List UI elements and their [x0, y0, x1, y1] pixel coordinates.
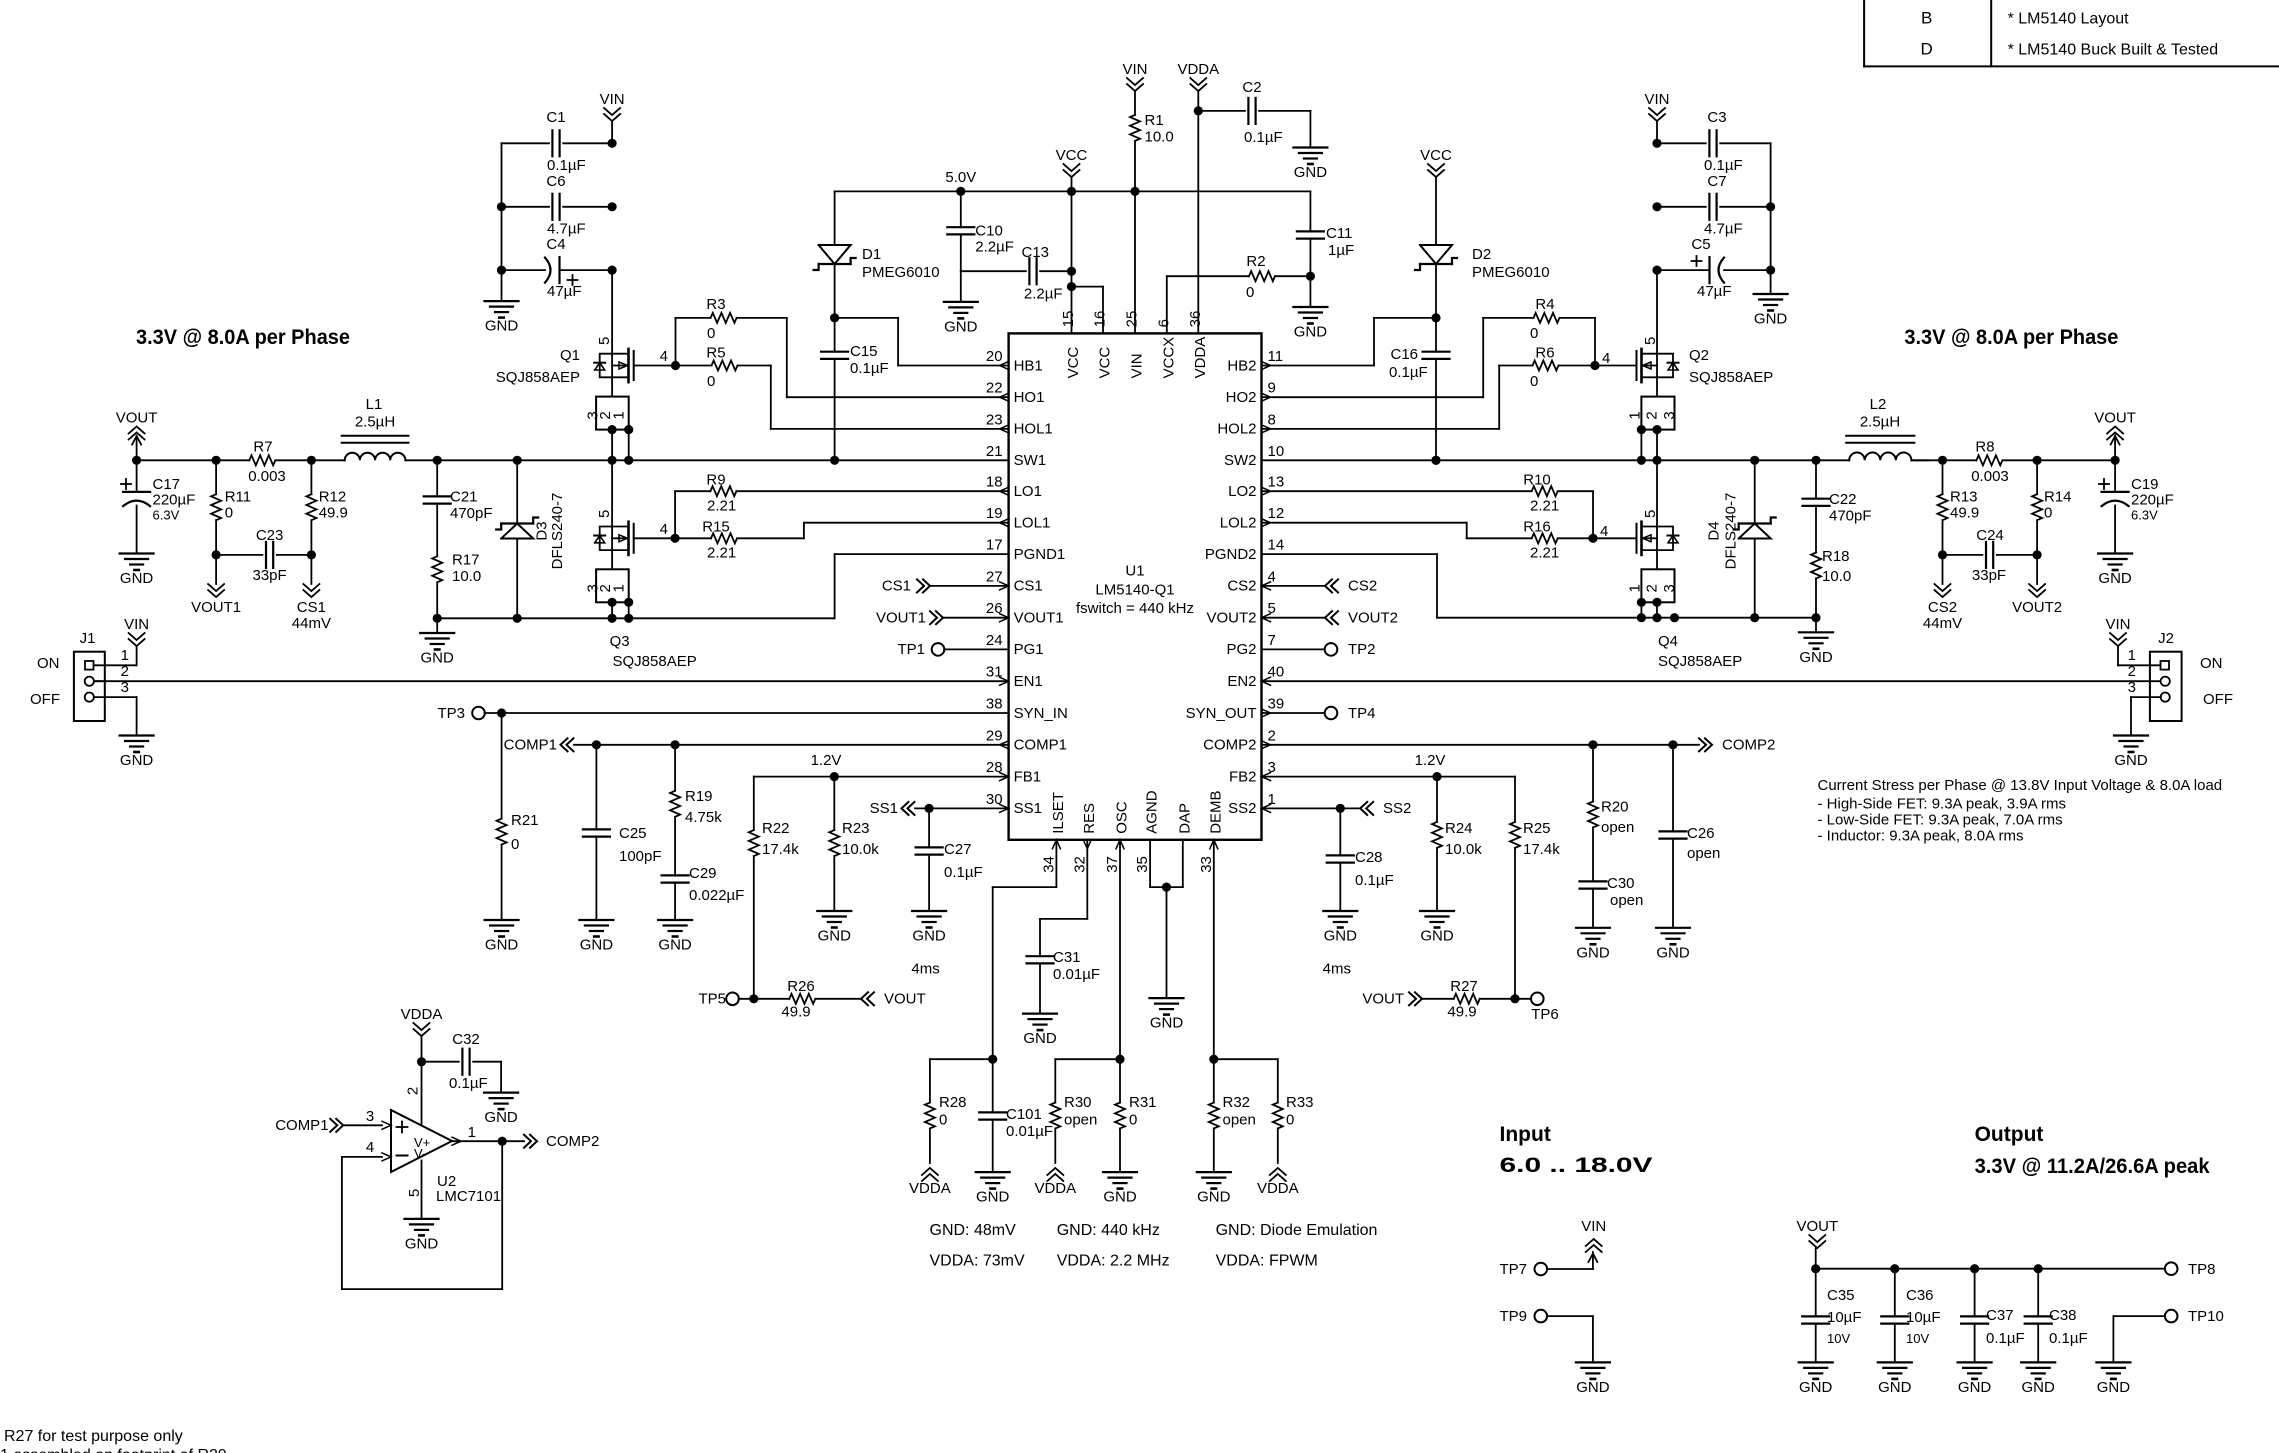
svg-text:VIN: VIN — [1122, 61, 1147, 78]
svg-text:GND: GND — [1103, 1189, 1137, 1206]
svg-text:C101: C101 — [1006, 1106, 1042, 1123]
svg-text:4: 4 — [1600, 523, 1608, 540]
svg-text:VOUT: VOUT — [116, 410, 158, 427]
svg-text:open: open — [1687, 845, 1720, 862]
svg-text:2: 2 — [1268, 727, 1276, 744]
svg-text:HOL2: HOL2 — [1217, 421, 1256, 438]
svg-text:0.1µF: 0.1µF — [1704, 157, 1743, 174]
svg-text:R33: R33 — [1286, 1094, 1314, 1111]
svg-text:PGND2: PGND2 — [1205, 546, 1257, 563]
svg-text:49.9: 49.9 — [319, 505, 348, 522]
svg-text:4.7µF: 4.7µF — [1704, 221, 1743, 238]
svg-text:1: 1 — [611, 584, 628, 592]
svg-text:TP9: TP9 — [1499, 1308, 1527, 1325]
svg-text:VCC: VCC — [1420, 147, 1452, 164]
svg-text:49.9: 49.9 — [1447, 1004, 1476, 1021]
svg-text:47µF: 47µF — [547, 283, 582, 300]
svg-text:36: 36 — [1187, 311, 1204, 328]
svg-text:2.21: 2.21 — [707, 545, 736, 562]
svg-text:0: 0 — [1246, 284, 1254, 301]
svg-text:SW1: SW1 — [1014, 452, 1047, 469]
svg-text:14: 14 — [1268, 537, 1285, 554]
svg-text:CS1: CS1 — [882, 578, 911, 595]
svg-text:23: 23 — [986, 411, 1003, 428]
svg-text:D: D — [1921, 40, 1933, 59]
svg-text:39: 39 — [1268, 696, 1285, 713]
svg-text:C29: C29 — [689, 865, 717, 882]
svg-text:1.2V: 1.2V — [1415, 752, 1446, 769]
svg-text:10.0: 10.0 — [1145, 129, 1174, 146]
svg-text:J2: J2 — [2158, 630, 2174, 647]
svg-text:* LM5140 Layout: * LM5140 Layout — [2008, 11, 2130, 28]
svg-text:LO2: LO2 — [1228, 483, 1256, 500]
svg-text:CS2: CS2 — [1227, 578, 1256, 595]
svg-text:EN2: EN2 — [1227, 673, 1256, 690]
svg-text:1.2V: 1.2V — [811, 752, 842, 769]
svg-text:R19: R19 — [685, 788, 713, 805]
svg-text:49.9: 49.9 — [781, 1004, 810, 1021]
svg-text:fswitch = 440 kHz: fswitch = 440 kHz — [1076, 600, 1194, 617]
svg-text:GND: GND — [1294, 164, 1328, 181]
svg-text:VIN: VIN — [1581, 1218, 1606, 1235]
svg-text:16: 16 — [1092, 311, 1109, 328]
svg-text:470pF: 470pF — [1829, 508, 1872, 525]
svg-text:11: 11 — [1268, 348, 1284, 365]
svg-text:D1: D1 — [862, 246, 881, 263]
svg-text:LM5140-Q1: LM5140-Q1 — [1095, 582, 1174, 599]
svg-text:GND: GND — [1958, 1379, 1992, 1396]
svg-text:2.2µF: 2.2µF — [975, 238, 1014, 255]
svg-text:VDDA: VDDA — [1034, 1180, 1076, 1197]
svg-text:R5: R5 — [706, 345, 725, 362]
svg-text:29: 29 — [986, 727, 1003, 744]
svg-text:VIN: VIN — [1129, 353, 1146, 378]
svg-text:2: 2 — [1643, 584, 1660, 592]
svg-text:TP1: TP1 — [897, 641, 925, 658]
svg-text:R31: R31 — [1129, 1094, 1157, 1111]
svg-text:SQJ858AEP: SQJ858AEP — [613, 653, 697, 670]
svg-text:34: 34 — [1040, 856, 1057, 873]
svg-text:24: 24 — [986, 632, 1003, 649]
svg-text:DAP: DAP — [1176, 803, 1193, 834]
svg-text:3.3V @ 8.0A per Phase: 3.3V @ 8.0A per Phase — [136, 326, 350, 349]
svg-text:10.0: 10.0 — [1822, 568, 1851, 585]
svg-text:3.3V @ 8.0A per Phase: 3.3V @ 8.0A per Phase — [1904, 326, 2118, 349]
svg-text:32: 32 — [1071, 856, 1088, 873]
svg-text:GND: 48mV: GND: 48mV — [930, 1222, 1017, 1239]
svg-text:100pF: 100pF — [619, 848, 662, 865]
svg-text:10V: 10V — [1906, 1331, 1929, 1346]
svg-text:C5: C5 — [1691, 236, 1710, 253]
svg-text:0.01µF: 0.01µF — [1006, 1123, 1053, 1140]
svg-text:C27: C27 — [944, 841, 972, 858]
svg-text:* LM5140 Buck Built & Tested: * LM5140 Buck Built & Tested — [2008, 42, 2219, 59]
svg-text:5.0V: 5.0V — [945, 169, 976, 186]
svg-text:3: 3 — [2128, 679, 2136, 696]
svg-text:TP4: TP4 — [1348, 705, 1376, 722]
svg-text:20: 20 — [986, 348, 1003, 365]
svg-text:5: 5 — [596, 337, 613, 345]
svg-text:0: 0 — [1530, 373, 1538, 390]
svg-text:R23: R23 — [842, 820, 870, 837]
svg-text:2.21: 2.21 — [1530, 545, 1559, 562]
svg-text:GND: GND — [818, 928, 852, 945]
svg-text:GND: GND — [2097, 1379, 2131, 1396]
svg-text:4: 4 — [660, 521, 668, 538]
svg-text:COMP1: COMP1 — [1014, 737, 1067, 754]
svg-text:SW2: SW2 — [1224, 452, 1257, 469]
svg-text:C3: C3 — [1707, 109, 1726, 126]
svg-text:D2: D2 — [1472, 246, 1491, 263]
svg-text:4: 4 — [366, 1139, 374, 1156]
svg-text:TP8: TP8 — [2188, 1261, 2216, 1278]
svg-text:R30: R30 — [1064, 1094, 1092, 1111]
svg-text:VDDA: 2.2 MHz: VDDA: 2.2 MHz — [1057, 1253, 1170, 1270]
svg-text:VIN: VIN — [124, 616, 149, 633]
svg-text:5: 5 — [1642, 337, 1659, 345]
svg-text:R15: R15 — [702, 519, 730, 536]
svg-text:C7: C7 — [1707, 173, 1726, 190]
svg-text:open: open — [1064, 1112, 1097, 1129]
svg-text:1: 1 — [2128, 647, 2136, 664]
svg-text:GND: Diode Emulation: GND: Diode Emulation — [1216, 1222, 1378, 1239]
svg-text:SS2: SS2 — [1383, 800, 1411, 817]
svg-text:V-: V- — [414, 1146, 426, 1161]
svg-text:VOUT2: VOUT2 — [1348, 609, 1398, 626]
svg-text:R4: R4 — [1535, 296, 1554, 313]
svg-text:DEMB: DEMB — [1207, 790, 1224, 833]
svg-text:GND: GND — [1754, 311, 1788, 328]
svg-text:GND: GND — [912, 928, 946, 945]
svg-text:C26: C26 — [1687, 825, 1715, 842]
svg-text:0.003: 0.003 — [248, 468, 286, 485]
svg-text:0: 0 — [1129, 1112, 1137, 1129]
svg-text:1µF: 1µF — [1328, 242, 1354, 259]
svg-text:TP10: TP10 — [2188, 1308, 2224, 1325]
svg-text:DFLS240-7: DFLS240-7 — [1723, 493, 1740, 570]
svg-text:VDDA: VDDA — [1177, 61, 1219, 78]
svg-text:open: open — [1223, 1112, 1256, 1129]
svg-text:VOUT: VOUT — [1362, 991, 1404, 1008]
svg-text:2: 2 — [2128, 663, 2136, 680]
svg-text:0.1µF: 0.1µF — [1244, 129, 1283, 146]
svg-text:C2: C2 — [1242, 79, 1261, 96]
svg-text:TP6: TP6 — [1531, 1006, 1559, 1023]
svg-text:- High-Side FET: 9.3A peak, 3.: - High-Side FET: 9.3A peak, 3.9A rms — [1818, 795, 2066, 812]
svg-text:17.4k: 17.4k — [1523, 841, 1560, 858]
svg-text:VDDA: VDDA — [401, 1006, 443, 1023]
svg-text:VIN: VIN — [2105, 616, 2130, 633]
svg-text:R14: R14 — [2044, 489, 2072, 506]
svg-text:L2: L2 — [1870, 396, 1887, 413]
svg-text:R6: R6 — [1535, 345, 1554, 362]
svg-text:L1: L1 — [366, 396, 383, 413]
svg-text:C13: C13 — [1022, 244, 1050, 261]
svg-text:33: 33 — [1198, 856, 1215, 873]
svg-text:4.75k: 4.75k — [685, 809, 722, 826]
svg-text:C16: C16 — [1391, 346, 1419, 363]
svg-text:0.01µF: 0.01µF — [1053, 966, 1100, 983]
svg-text:C24: C24 — [1976, 527, 2004, 544]
svg-text:49.9: 49.9 — [1950, 505, 1979, 522]
svg-text:DFLS240-7: DFLS240-7 — [549, 493, 566, 570]
svg-text:GND: GND — [485, 318, 519, 335]
svg-text:PG2: PG2 — [1226, 641, 1256, 658]
svg-text:4.7µF: 4.7µF — [547, 221, 586, 238]
svg-text:5: 5 — [406, 1189, 423, 1197]
svg-text:0: 0 — [1530, 325, 1538, 342]
svg-text:2.2µF: 2.2µF — [1024, 286, 1063, 303]
svg-text:2.21: 2.21 — [707, 498, 736, 515]
svg-text:0.003: 0.003 — [1971, 468, 2009, 485]
svg-text:0: 0 — [707, 373, 715, 390]
svg-text:COMP2: COMP2 — [546, 1133, 599, 1150]
svg-text:R20: R20 — [1601, 799, 1629, 816]
svg-text:GND: GND — [1294, 324, 1328, 341]
svg-text:C31: C31 — [1053, 949, 1081, 966]
svg-text:R25: R25 — [1523, 820, 1551, 837]
svg-text:SQJ858AEP: SQJ858AEP — [1689, 369, 1773, 386]
svg-text:25: 25 — [1124, 311, 1141, 328]
svg-text:GND: GND — [1023, 1030, 1057, 1047]
svg-text:0.1µF: 0.1µF — [850, 360, 889, 377]
svg-text:- Low-Side FET: 9.3A peak, 7.0: - Low-Side FET: 9.3A peak, 7.0A rms — [1818, 812, 2063, 829]
svg-text:HB2: HB2 — [1227, 357, 1256, 374]
svg-text:FB2: FB2 — [1229, 768, 1257, 785]
svg-text:10.0: 10.0 — [452, 568, 481, 585]
svg-text:R28: R28 — [939, 1094, 967, 1111]
svg-text:1: 1 — [1627, 584, 1644, 592]
svg-text:R17: R17 — [452, 552, 480, 569]
svg-text:LOL2: LOL2 — [1220, 515, 1257, 532]
svg-text:COMP1: COMP1 — [275, 1117, 328, 1134]
svg-text:COMP1: COMP1 — [504, 737, 557, 754]
svg-text:0.1µF: 0.1µF — [944, 864, 983, 881]
svg-text:EN1: EN1 — [1014, 673, 1043, 690]
svg-text:GND: GND — [2098, 570, 2132, 587]
svg-text:4: 4 — [660, 348, 668, 365]
svg-text:R11: R11 — [225, 489, 251, 506]
svg-text:VOUT1: VOUT1 — [191, 599, 241, 616]
svg-text:U1: U1 — [1125, 563, 1144, 580]
svg-text:R27 for test purpose only: R27 for test purpose only — [4, 1428, 183, 1445]
svg-text:PG1: PG1 — [1014, 641, 1044, 658]
svg-text:GND: GND — [1150, 1015, 1184, 1032]
svg-text:1: 1 — [1627, 411, 1644, 419]
svg-text:GND: GND — [1878, 1379, 1912, 1396]
svg-text:GND: GND — [405, 1235, 439, 1252]
svg-text:R1: R1 — [1145, 112, 1164, 129]
svg-text:0: 0 — [2044, 505, 2052, 522]
svg-text:SS1: SS1 — [870, 800, 898, 817]
svg-text:GND: GND — [944, 318, 978, 335]
svg-text:1 assembled on footprint of R2: 1 assembled on footprint of R29 — [0, 1447, 227, 1453]
svg-text:GND: 440 kHz: GND: 440 kHz — [1057, 1222, 1160, 1239]
svg-text:SQJ858AEP: SQJ858AEP — [496, 369, 580, 386]
svg-text:SS2: SS2 — [1228, 800, 1256, 817]
svg-text:35: 35 — [1134, 856, 1151, 873]
svg-text:RES: RES — [1081, 803, 1098, 834]
svg-text:Input: Input — [1500, 1123, 1551, 1146]
svg-text:GND: GND — [2114, 752, 2148, 769]
svg-text:GND: GND — [1656, 944, 1690, 961]
svg-text:LO1: LO1 — [1014, 483, 1042, 500]
svg-text:C36: C36 — [1906, 1287, 1934, 1304]
svg-text:Q3: Q3 — [610, 633, 630, 650]
svg-text:12: 12 — [1268, 505, 1285, 522]
svg-text:VOUT: VOUT — [2094, 410, 2136, 427]
svg-text:GND: GND — [580, 937, 614, 954]
svg-text:33pF: 33pF — [252, 567, 286, 584]
svg-text:CS1: CS1 — [1014, 578, 1043, 595]
svg-text:1: 1 — [611, 411, 628, 419]
svg-text:5: 5 — [1642, 510, 1659, 518]
svg-text:R16: R16 — [1523, 519, 1551, 536]
svg-text:ILSET: ILSET — [1050, 792, 1067, 834]
svg-text:R22: R22 — [762, 820, 790, 837]
svg-text:GND: GND — [2022, 1379, 2056, 1396]
svg-text:2.5µH: 2.5µH — [355, 414, 395, 431]
svg-text:44mV: 44mV — [1923, 615, 1962, 632]
svg-text:0.1µF: 0.1µF — [2049, 1330, 2088, 1347]
svg-text:GND: GND — [421, 650, 455, 667]
svg-text:47µF: 47µF — [1697, 283, 1732, 300]
svg-text:VCC: VCC — [1065, 347, 1082, 379]
svg-text:COMP2: COMP2 — [1203, 737, 1256, 754]
svg-text:10.0k: 10.0k — [842, 841, 879, 858]
svg-text:GND: GND — [120, 752, 154, 769]
svg-text:C35: C35 — [1827, 1287, 1855, 1304]
svg-text:Output: Output — [1975, 1123, 2044, 1146]
svg-text:VOUT1: VOUT1 — [1014, 610, 1064, 627]
svg-text:C4: C4 — [546, 236, 565, 253]
svg-text:ON: ON — [2200, 655, 2223, 672]
svg-text:6.0 .. 18.0V: 6.0 .. 18.0V — [1500, 1154, 1653, 1177]
svg-text:17.4k: 17.4k — [762, 841, 799, 858]
svg-text:SYN_IN: SYN_IN — [1014, 705, 1068, 722]
svg-text:VDDA: FPWM: VDDA: FPWM — [1216, 1253, 1318, 1270]
svg-text:0: 0 — [1286, 1112, 1294, 1129]
svg-text:LOL1: LOL1 — [1014, 515, 1051, 532]
svg-text:GND: GND — [976, 1189, 1010, 1206]
svg-text:Current Stress per Phase @ 13.: Current Stress per Phase @ 13.8V Input V… — [1818, 777, 2223, 794]
svg-text:R7: R7 — [253, 439, 272, 456]
svg-text:2.5µH: 2.5µH — [1860, 414, 1900, 431]
svg-text:- Inductor: 9.3A peak, 8.0A rm: - Inductor: 9.3A peak, 8.0A rms — [1818, 828, 2024, 845]
svg-text:4: 4 — [1602, 350, 1610, 367]
svg-text:R26: R26 — [787, 978, 815, 995]
svg-text:VIN: VIN — [1644, 91, 1669, 108]
svg-text:TP5: TP5 — [698, 991, 726, 1008]
svg-text:3: 3 — [366, 1108, 374, 1125]
svg-text:0.1µF: 0.1µF — [1986, 1330, 2025, 1347]
svg-text:0: 0 — [939, 1112, 947, 1129]
svg-text:10µF: 10µF — [1827, 1309, 1862, 1326]
svg-text:2: 2 — [121, 663, 129, 680]
svg-text:7: 7 — [1268, 632, 1276, 649]
svg-text:44mV: 44mV — [292, 615, 331, 632]
svg-text:C38: C38 — [2049, 1307, 2077, 1324]
svg-text:TP3: TP3 — [437, 705, 465, 722]
svg-text:PMEG6010: PMEG6010 — [862, 264, 940, 281]
svg-text:19: 19 — [986, 505, 1003, 522]
svg-text:38: 38 — [986, 696, 1003, 713]
svg-text:6.3V: 6.3V — [153, 508, 180, 523]
svg-text:GND: GND — [1197, 1189, 1231, 1206]
svg-text:R10: R10 — [1523, 472, 1551, 489]
svg-text:VCC: VCC — [1056, 147, 1088, 164]
svg-text:0.1µF: 0.1µF — [1389, 364, 1428, 381]
svg-text:C15: C15 — [850, 343, 878, 360]
svg-text:220µF: 220µF — [153, 492, 196, 509]
svg-text:HO1: HO1 — [1014, 389, 1045, 406]
svg-text:C10: C10 — [975, 222, 1003, 239]
svg-text:R27: R27 — [1450, 978, 1478, 995]
svg-text:VOUT2: VOUT2 — [1206, 610, 1256, 627]
svg-text:PMEG6010: PMEG6010 — [1472, 264, 1550, 281]
svg-text:VOUT: VOUT — [1796, 1218, 1838, 1235]
svg-text:GND: GND — [658, 937, 692, 954]
svg-text:C32: C32 — [452, 1031, 480, 1048]
svg-text:GND: GND — [1324, 928, 1358, 945]
svg-text:10: 10 — [1268, 443, 1285, 460]
svg-text:4ms: 4ms — [1323, 961, 1351, 978]
svg-text:4ms: 4ms — [911, 961, 939, 978]
svg-text:CS1: CS1 — [297, 599, 326, 616]
svg-text:VDDA: VDDA — [909, 1180, 951, 1197]
svg-text:3: 3 — [1661, 584, 1678, 592]
svg-text:15: 15 — [1060, 311, 1077, 328]
svg-text:18: 18 — [986, 474, 1003, 491]
svg-text:ON: ON — [37, 655, 60, 672]
svg-text:VIN: VIN — [600, 91, 625, 108]
svg-text:SYN_OUT: SYN_OUT — [1186, 705, 1257, 722]
svg-text:22: 22 — [986, 380, 1003, 397]
svg-text:Q2: Q2 — [1689, 347, 1709, 364]
svg-text:GND: GND — [120, 570, 154, 587]
svg-text:C19: C19 — [2131, 476, 2159, 493]
svg-text:OFF: OFF — [2203, 691, 2233, 708]
svg-text:0.1µF: 0.1µF — [547, 157, 586, 174]
svg-text:Q4: Q4 — [1658, 633, 1678, 650]
svg-text:R32: R32 — [1223, 1094, 1251, 1111]
svg-text:VDDA: VDDA — [1257, 1180, 1299, 1197]
svg-text:GND: GND — [1420, 928, 1454, 945]
svg-text:8: 8 — [1268, 411, 1276, 428]
svg-text:GND: GND — [1576, 1379, 1610, 1396]
svg-text:3: 3 — [1661, 411, 1678, 419]
svg-text:C22: C22 — [1829, 491, 1857, 508]
svg-text:10V: 10V — [1827, 1331, 1850, 1346]
svg-text:HO2: HO2 — [1226, 389, 1257, 406]
svg-text:0: 0 — [225, 505, 233, 522]
svg-text:GND: GND — [484, 1109, 518, 1126]
svg-text:5: 5 — [596, 510, 613, 518]
svg-text:21: 21 — [986, 443, 1003, 460]
svg-text:TP2: TP2 — [1348, 641, 1376, 658]
svg-text:220µF: 220µF — [2131, 492, 2174, 509]
svg-text:0.1µF: 0.1µF — [449, 1075, 488, 1092]
svg-text:VDDA: VDDA — [1192, 337, 1209, 379]
svg-text:AGND: AGND — [1144, 790, 1161, 834]
svg-text:C28: C28 — [1355, 849, 1383, 866]
svg-text:B: B — [1921, 9, 1932, 28]
svg-text:R13: R13 — [1950, 489, 1978, 506]
svg-text:VCCX: VCCX — [1160, 337, 1177, 379]
svg-text:2: 2 — [1643, 411, 1660, 419]
svg-text:OSC: OSC — [1114, 801, 1131, 834]
svg-text:VDDA: 73mV: VDDA: 73mV — [930, 1253, 1025, 1270]
